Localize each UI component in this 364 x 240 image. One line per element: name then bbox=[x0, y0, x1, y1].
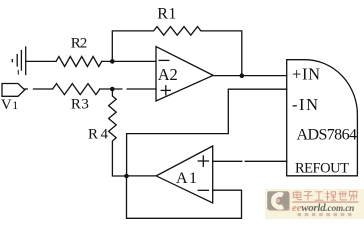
watermark logo background bbox=[265, 189, 364, 219]
svg-text:eeworld.com.cn: eeworld.com.cn bbox=[292, 202, 354, 214]
node: A2 output junction bbox=[240, 73, 245, 78]
resistor R1 bbox=[112, 27, 242, 76]
char jie bbox=[349, 191, 356, 200]
resistor R3 bbox=[53, 84, 100, 95]
node: A1 output junction bbox=[124, 174, 129, 179]
svg-text:R2: R2 bbox=[71, 35, 88, 51]
op-amp A1 bbox=[156, 146, 213, 203]
resistor R4 (vertical) bbox=[109, 89, 127, 176]
Vi input tag bbox=[2, 84, 25, 97]
svg-text:R1: R1 bbox=[157, 6, 176, 23]
wire R2 to A2 minus input bbox=[102, 60, 156, 62]
IC ADS7864 box bbox=[287, 60, 358, 176]
stray mark bbox=[17, 70, 19, 74]
svg-text:V: V bbox=[1, 97, 12, 113]
logo C crescent bbox=[273, 194, 283, 207]
resistor R2 bbox=[56, 57, 102, 67]
ground bbox=[12, 47, 25, 75]
char shi bbox=[338, 191, 347, 200]
char gong bbox=[314, 192, 323, 200]
wire A1 feedback loop bbox=[127, 176, 242, 218]
svg-text:+IN: +IN bbox=[292, 65, 320, 84]
node: R3/R4 junction bbox=[110, 87, 115, 92]
svg-text:ADS7864: ADS7864 bbox=[297, 126, 358, 143]
wire A1 +in to REFOUT (with scan gap) bbox=[213, 160, 242, 162]
wire A2 output to ADS7864 +IN bbox=[213, 75, 287, 77]
svg-text:R4: R4 bbox=[88, 126, 109, 142]
svg-text:A2: A2 bbox=[158, 65, 178, 84]
logo center dot bbox=[276, 199, 280, 203]
watermark chinese title strokes bbox=[293, 191, 357, 201]
wire R3 to A2 plus input (with scan gap) bbox=[100, 88, 122, 90]
wire ground to R2 bbox=[26, 60, 56, 62]
A1 minus symbol bbox=[198, 189, 208, 191]
svg-text:1: 1 bbox=[12, 98, 18, 112]
wire A1 output to junction bbox=[127, 175, 157, 177]
svg-text:-IN: -IN bbox=[292, 95, 318, 114]
watermark tiny slogan bbox=[298, 213, 352, 216]
node: R2/R1 junction bbox=[110, 59, 115, 64]
char dian bbox=[293, 191, 302, 200]
A2 plus symbol bbox=[161, 89, 170, 91]
logo icon square bbox=[269, 193, 291, 212]
svg-text:A1: A1 bbox=[176, 170, 197, 187]
wire Vi to R3 (with scan gap) bbox=[25, 88, 28, 90]
char zi bbox=[304, 192, 313, 201]
svg-text:REFOUT: REFOUT bbox=[295, 160, 349, 176]
op-amp A2 bbox=[156, 47, 213, 102]
A2 minus symbol bbox=[159, 59, 169, 61]
char cheng bbox=[326, 191, 337, 201]
watermark underline bbox=[292, 201, 358, 202]
svg-text:R3: R3 bbox=[71, 97, 89, 113]
wire -IN routing bbox=[127, 89, 287, 176]
A1 plus symbol bbox=[198, 160, 208, 162]
